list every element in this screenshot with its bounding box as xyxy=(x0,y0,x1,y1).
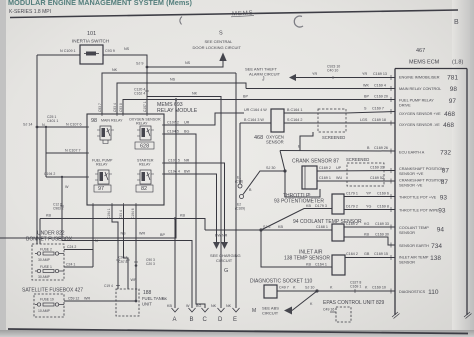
svg-text:C40 10: C40 10 xyxy=(327,69,338,73)
svg-text:CIRCUIT: CIRCUIT xyxy=(216,258,233,263)
connector C90 3 / C20 3 on WR wire xyxy=(134,261,138,263)
svg-text:467: 467 xyxy=(416,48,425,54)
svg-text:NK: NK xyxy=(211,304,217,308)
svg-text:C169 18: C169 18 xyxy=(372,118,386,122)
svg-text:97: 97 xyxy=(98,186,104,192)
svg-text:C97 8: C97 8 xyxy=(119,260,128,264)
svg-text:BONNET FUSEBOX: BONNET FUSEBOX xyxy=(26,237,73,243)
svg-text:BP: BP xyxy=(364,95,369,99)
svg-text:C169 33: C169 33 xyxy=(375,222,389,226)
svg-text:KB: KB xyxy=(364,233,369,237)
svg-text:SENSOR: SENSOR xyxy=(266,140,284,145)
svg-text:C49 7: C49 7 xyxy=(279,286,289,290)
screened shield box (oxygen) xyxy=(318,109,346,132)
svg-text:FUSE 1: FUSE 1 xyxy=(40,265,52,269)
right page-curl shading xyxy=(452,0,474,333)
svg-text:YR: YR xyxy=(362,72,367,76)
svg-text:NS: NS xyxy=(170,78,176,82)
wire KG coolant to ECM xyxy=(344,226,395,228)
inertia switch 101 xyxy=(72,31,109,64)
svg-text:C93 7: C93 7 xyxy=(98,103,102,112)
arrow B xyxy=(189,308,196,312)
svg-text:RELAY: RELAY xyxy=(139,163,151,167)
svg-text:C90 2: C90 2 xyxy=(119,256,128,260)
wire C24 1 from fusebox xyxy=(64,266,93,268)
wire B to ECM ecu earth xyxy=(280,150,395,153)
svg-text:FUSE 19: FUSE 19 xyxy=(40,298,54,302)
svg-text:N C107 6: N C107 6 xyxy=(66,123,82,127)
svg-text:SENSOR +VE: SENSOR +VE xyxy=(399,172,424,176)
svg-text:SJ 10: SJ 10 xyxy=(305,286,314,290)
svg-text:10 AMP: 10 AMP xyxy=(38,309,51,313)
node SJ 9 xyxy=(146,66,149,69)
top rule xyxy=(10,10,458,18)
wire NK down to arrow E xyxy=(235,73,237,308)
wire KB to coolant sensor with node SJ5 xyxy=(205,229,332,231)
svg-text:NS: NS xyxy=(124,47,130,51)
svg-text:SENSOR: SENSOR xyxy=(399,231,415,235)
svg-text:93: 93 xyxy=(440,195,448,202)
svg-text:RELAY: RELAY xyxy=(96,163,108,167)
svg-text:KB: KB xyxy=(278,225,283,229)
svg-text:A: A xyxy=(173,317,177,323)
svg-text:C169 6: C169 6 xyxy=(377,192,389,196)
svg-text:SJ 5: SJ 5 xyxy=(263,225,270,229)
inlet air temp sensor 138 xyxy=(284,250,345,276)
svg-text:110: 110 xyxy=(428,289,439,296)
svg-text:C20 3: C20 3 xyxy=(146,262,155,266)
svg-text:N C107 7: N C107 7 xyxy=(65,149,81,153)
wire KB coolant to ECM sensor earth xyxy=(344,237,395,245)
svg-text:E: E xyxy=(233,317,237,323)
svg-text:C107 5: C107 5 xyxy=(168,159,180,163)
svg-text:C168 1: C168 1 xyxy=(316,225,328,229)
wire NS to door locking arrow xyxy=(147,61,223,67)
svg-text:S: S xyxy=(219,31,223,37)
svg-text:93: 93 xyxy=(438,208,446,215)
arrow A xyxy=(172,308,179,312)
svg-text:C194 4: C194 4 xyxy=(168,170,180,174)
node SJ 30 xyxy=(283,169,286,172)
svg-text:BW: BW xyxy=(184,170,190,174)
svg-text:C169 20: C169 20 xyxy=(374,95,388,99)
svg-text:NK: NK xyxy=(226,304,232,308)
wire KB run to A arrow and coolant sensor xyxy=(40,219,205,245)
bottom connector arrows A-E xyxy=(162,297,232,308)
under bonnet fusebox 822 xyxy=(26,231,73,281)
svg-text:98: 98 xyxy=(91,118,97,124)
svg-text:G: G xyxy=(224,268,228,274)
connector C90 2 / C97 8 on fuel tank wires xyxy=(116,259,130,261)
svg-text:781: 781 xyxy=(447,75,458,82)
svg-text:C169 7: C169 7 xyxy=(372,107,384,111)
bottom page edge xyxy=(0,330,474,337)
wire S to ECM oxygen +ve xyxy=(318,112,395,114)
svg-text:C169 30: C169 30 xyxy=(375,233,389,237)
svg-text:628: 628 xyxy=(140,144,149,150)
wire WU crank to ECM ckp -ve xyxy=(317,180,395,182)
wire W from relay area down to B arrow xyxy=(62,177,192,308)
svg-text:C169 52: C169 52 xyxy=(370,176,384,180)
ECM pin ticks xyxy=(390,75,392,294)
MEMS relay module 693 xyxy=(85,102,198,207)
svg-text:SCREENED: SCREENED xyxy=(322,135,345,140)
screened shield box (crank) xyxy=(347,163,384,186)
wire WR starter feed down xyxy=(135,205,137,301)
wire GB inlet air to ECM xyxy=(345,257,395,259)
wire N below relay module to fusebox xyxy=(92,205,94,267)
svg-text:S C164 2: S C164 2 xyxy=(287,118,302,122)
wire N branch vertical xyxy=(45,127,47,177)
svg-text:YG: YG xyxy=(366,205,371,209)
svg-text:C24 1: C24 1 xyxy=(66,263,75,267)
svg-text:C93 8: C93 8 xyxy=(119,103,123,112)
svg-text:RELAY MODULE: RELAY MODULE xyxy=(157,108,198,114)
svg-text:ECU EARTH A: ECU EARTH A xyxy=(399,151,425,155)
svg-text:SENSOR -VE: SENSOR -VE xyxy=(399,184,423,188)
wire BP to page edge xyxy=(0,100,176,239)
bottom page border xyxy=(8,329,468,334)
svg-text:FUSE 2: FUSE 2 xyxy=(40,248,52,252)
wire left vertical feed xyxy=(36,55,38,244)
wire C194 2 into relay module xyxy=(46,176,87,178)
svg-text:THROTTLE POT WIPE: THROTTLE POT WIPE xyxy=(399,209,439,213)
wire UP crank to ECM ckp +ve xyxy=(317,170,395,173)
svg-text:BP: BP xyxy=(243,95,248,99)
pen mark parenthesis xyxy=(180,17,182,25)
svg-text:C59 12: C59 12 xyxy=(68,297,79,301)
svg-text:SJ 14: SJ 14 xyxy=(23,123,32,127)
svg-text:KG: KG xyxy=(364,222,369,226)
wire WR from satellite fusebox xyxy=(64,300,136,302)
coolant temp sensor 94 xyxy=(293,219,362,241)
svg-text:CRANKSHAFT POSITION: CRANKSHAFT POSITION xyxy=(399,167,444,171)
wire KB into throttle pot xyxy=(261,209,332,231)
svg-text:C24 2: C24 2 xyxy=(67,245,76,249)
svg-text:MAIN RELAY CONTROL: MAIN RELAY CONTROL xyxy=(399,87,441,91)
svg-text:KB: KB xyxy=(46,214,51,218)
svg-text:YR: YR xyxy=(312,72,317,76)
wire NS from inertia switch right xyxy=(103,55,147,67)
svg-text:C164 2: C164 2 xyxy=(346,252,358,256)
wire NS vertical from SJ9 to relay module xyxy=(146,67,148,114)
svg-text:C169 10: C169 10 xyxy=(372,286,386,290)
svg-text:SJ 30: SJ 30 xyxy=(266,166,275,170)
svg-text:734: 734 xyxy=(431,243,442,250)
wire K diagnostic socket to ECM xyxy=(277,290,395,292)
svg-text:101: 101 xyxy=(87,31,96,37)
svg-text:C: C xyxy=(203,317,208,323)
wire B oxygen sensor to screened xyxy=(284,112,318,114)
svg-text:138: 138 xyxy=(430,255,441,262)
arrow to anti theft alarm circuit + YR wire xyxy=(289,74,296,81)
svg-text:C169 26: C169 26 xyxy=(374,146,388,150)
svg-text:W: W xyxy=(186,304,190,308)
svg-text:ALARM CIRCUIT: ALARM CIRCUIT xyxy=(249,71,281,76)
svg-text:C107 2: C107 2 xyxy=(167,121,179,125)
wire NK from main relay across top xyxy=(102,73,236,114)
wire BP fuel pump relay drive to ECM xyxy=(123,100,395,115)
svg-text:94: 94 xyxy=(437,227,445,234)
svg-text:MAIN RELAY: MAIN RELAY xyxy=(101,119,123,123)
svg-text:(C169): (C169) xyxy=(235,207,245,211)
svg-text:KB: KB xyxy=(306,204,311,208)
svg-text:GB: GB xyxy=(364,252,370,256)
svg-text:C169 8: C169 8 xyxy=(377,205,389,209)
svg-text:C49 16: C49 16 xyxy=(323,308,334,312)
svg-text:468: 468 xyxy=(254,135,263,141)
svg-text:OXYGEN SENSOR -VE: OXYGEN SENSOR -VE xyxy=(399,123,440,127)
wire YG throttle to ECM pot wipe xyxy=(344,209,395,211)
svg-text:C93 9: C93 9 xyxy=(105,49,115,53)
svg-text:C194 6: C194 6 xyxy=(131,208,135,219)
svg-text:SEE CENTRAL: SEE CENTRAL xyxy=(205,39,234,44)
svg-text:ENGINE IMMOBILISER: ENGINE IMMOBILISER xyxy=(399,76,440,80)
svg-text:(C78): (C78) xyxy=(235,180,243,184)
throttle potentiometer 93 xyxy=(274,193,344,214)
wire C24 2 from fusebox xyxy=(64,249,93,251)
svg-text:M: M xyxy=(252,308,256,314)
wire NS/WP fuel pump feed down to fuel tank unit xyxy=(112,205,118,289)
arrow D xyxy=(218,308,225,312)
svg-text:INLET AIR TEMP: INLET AIR TEMP xyxy=(399,256,429,260)
wire N from inertia switch to left vertical xyxy=(37,54,80,56)
wire S oxygen sensor to screened xyxy=(284,122,318,124)
svg-text:UR: UR xyxy=(184,121,190,125)
svg-text:C194 2: C194 2 xyxy=(44,172,55,176)
svg-text:K-SERIES 1.8 MPI: K-SERIES 1.8 MPI xyxy=(9,9,51,15)
svg-text:C162 4: C162 4 xyxy=(134,92,145,96)
svg-text:C169 13: C169 13 xyxy=(373,72,387,76)
arrow E xyxy=(233,308,240,312)
wire UR from relay to oxygen sensor xyxy=(164,113,244,125)
wire NR from relay to charging arrow xyxy=(164,163,225,242)
svg-text:B: B xyxy=(454,19,459,26)
node SJ 14 xyxy=(36,126,39,129)
svg-text:C401 1: C401 1 xyxy=(47,119,58,123)
svg-text:NS: NS xyxy=(121,232,127,236)
svg-text:BW NR: BW NR xyxy=(215,234,228,238)
svg-text:KB: KB xyxy=(180,214,185,218)
wire BG from relay to C arrow xyxy=(164,134,205,308)
svg-text:(1.8): (1.8) xyxy=(452,60,463,66)
wire B down to node SJ30 xyxy=(280,151,285,172)
earth point E1 xyxy=(239,123,241,184)
wire NS from relay module top xyxy=(117,83,246,114)
EPAS control unit 829 xyxy=(323,300,385,322)
svg-text:COOLANT TEMP: COOLANT TEMP xyxy=(399,226,429,230)
svg-text:KB: KB xyxy=(167,304,172,308)
svg-text:C169 1: C169 1 xyxy=(350,285,361,289)
svg-text:C169 2: C169 2 xyxy=(319,166,331,170)
svg-text:SENSOR EARTH: SENSOR EARTH xyxy=(399,244,429,248)
svg-text:D179 2: D179 2 xyxy=(346,205,358,209)
svg-text:C19 4: C19 4 xyxy=(104,284,113,288)
svg-text:THROTTLE POT +VE: THROTTLE POT +VE xyxy=(399,196,437,200)
svg-text:98: 98 xyxy=(450,86,458,93)
svg-text:UP: UP xyxy=(336,166,342,170)
svg-text:DRIVE: DRIVE xyxy=(399,104,411,108)
ECM 467 MEMS ECM (1.8) xyxy=(392,48,472,319)
fuel tank unit 188 xyxy=(116,289,165,316)
svg-text:C169 15: C169 15 xyxy=(374,252,388,256)
wire N supply to relay module xyxy=(37,126,87,128)
wire fuel gauge down to fuel tank unit xyxy=(124,205,129,289)
svg-text:YP: YP xyxy=(366,192,371,196)
svg-text:138 TEMP SENSOR: 138 TEMP SENSOR xyxy=(284,256,330,262)
svg-text:BG: BG xyxy=(184,130,189,134)
wire N C107 7 into relay module xyxy=(46,152,87,154)
relay main relay 98 xyxy=(91,118,123,144)
svg-text:WU: WU xyxy=(336,176,342,180)
arrow to central door locking circuit xyxy=(219,53,226,62)
svg-text:SCREENED: SCREENED xyxy=(346,157,369,162)
svg-text:NR: NR xyxy=(184,159,190,163)
svg-text:732: 732 xyxy=(440,150,451,157)
wire BW from relay to charging arrow xyxy=(164,174,217,242)
break marks at box bottom xyxy=(392,312,400,319)
svg-text:NK: NK xyxy=(112,68,118,72)
svg-text:DIAGNOSTIC SOCKET 110: DIAGNOSTIC SOCKET 110 xyxy=(250,279,313,285)
wire LGS to ECM oxygen -ve xyxy=(318,122,395,124)
svg-text:N C109 1: N C109 1 xyxy=(60,49,76,53)
wire B W into oxygen sensor from earth xyxy=(240,122,271,124)
svg-text:CRANKSHAFT POSITION: CRANKSHAFT POSITION xyxy=(399,179,444,183)
svg-text:C194 1: C194 1 xyxy=(107,208,111,219)
svg-text:C93 4: C93 4 xyxy=(113,103,117,112)
arrow see ABS circuit xyxy=(284,307,292,315)
svg-text:30 AMP: 30 AMP xyxy=(38,258,51,262)
svg-text:C169 4: C169 4 xyxy=(374,84,386,88)
svg-text:B C164 1: B C164 1 xyxy=(287,108,302,112)
earth point E2 xyxy=(240,195,244,199)
wire YP throttle to ECM pot +ve xyxy=(344,196,395,198)
svg-text:CIRCUIT: CIRCUIT xyxy=(262,311,279,316)
svg-text:LGS: LGS xyxy=(360,118,368,122)
wire NK from relay module to D arrow xyxy=(147,97,221,309)
svg-text:BG: BG xyxy=(196,304,201,308)
wire WK to ECM main relay control xyxy=(246,88,395,90)
svg-text:RELAY: RELAY xyxy=(136,122,148,126)
wire B from SJ30 to earth E2 xyxy=(243,171,285,195)
wire screen drain to B earth line xyxy=(300,132,313,151)
node SJ 10 xyxy=(315,289,318,292)
svg-text:SATELLITE FUSEBOX 427: SATELLITE FUSEBOX 427 xyxy=(22,288,83,294)
wire K from SJ10 to ABS arrow xyxy=(292,291,317,311)
svg-text:C179 1: C179 1 xyxy=(346,192,358,196)
svg-text:WR: WR xyxy=(84,297,90,301)
svg-text:97: 97 xyxy=(449,98,457,105)
svg-text:WK: WK xyxy=(363,84,369,88)
svg-text:MEMS ECM: MEMS ECM xyxy=(409,60,440,66)
relay oxygen sensor relay 628 xyxy=(129,118,161,150)
svg-text:C164 1: C164 1 xyxy=(315,263,327,267)
svg-text:KB: KB xyxy=(306,263,311,267)
svg-text:EPAS CONTROL UNIT 829: EPAS CONTROL UNIT 829 xyxy=(323,300,385,306)
svg-text:INERTIA SWITCH: INERTIA SWITCH xyxy=(72,39,109,44)
svg-text:NS: NS xyxy=(185,61,191,65)
svg-text:NK: NK xyxy=(192,92,198,96)
svg-text:MODULAR ENGINE MANAGEMENT SYST: MODULAR ENGINE MANAGEMENT SYSTEM (Mems) xyxy=(8,0,192,7)
svg-text:WR: WR xyxy=(139,232,145,236)
svg-text:C169 2: C169 2 xyxy=(346,222,358,226)
svg-text:468: 468 xyxy=(444,111,455,118)
svg-text:D179 3: D179 3 xyxy=(315,204,327,208)
svg-text:B: B xyxy=(190,317,194,323)
svg-text:CRANK SENSOR 87: CRANK SENSOR 87 xyxy=(292,159,339,165)
satellite fusebox 427 xyxy=(22,288,83,318)
svg-text:30 AMP: 30 AMP xyxy=(38,275,51,279)
ECM row engine immobiliser 781 xyxy=(399,75,458,297)
svg-text:468: 468 xyxy=(443,122,454,129)
oxygen sensor 468 xyxy=(254,109,284,145)
svg-text:WP: WP xyxy=(131,278,137,282)
wire KB from SJ5 to inlet air sensor xyxy=(261,230,332,267)
wire B from SJ30 under crank sensor xyxy=(285,171,320,197)
svg-text:NK: NK xyxy=(162,297,168,301)
svg-text:UR C164 4 W: UR C164 4 W xyxy=(244,108,267,112)
pen mark C xyxy=(294,16,303,27)
svg-text:BP: BP xyxy=(160,233,165,237)
crank sensor 87 xyxy=(292,159,339,190)
relay fuel pump relay 97 xyxy=(92,159,113,193)
diagnostic socket 110 xyxy=(250,279,313,299)
svg-text:SJ 9: SJ 9 xyxy=(136,62,143,66)
svg-text:C169 31: C169 31 xyxy=(370,166,384,170)
svg-text:D: D xyxy=(218,317,223,323)
relay starter relay 82 xyxy=(136,159,154,193)
svg-text:W: W xyxy=(65,185,69,189)
svg-text:DIAGNOSTICS: DIAGNOSTICS xyxy=(399,290,426,294)
svg-text:B C164 3 W: B C164 3 W xyxy=(244,118,264,122)
svg-text:C194 5: C194 5 xyxy=(167,130,179,134)
svg-text:C93 4: C93 4 xyxy=(119,210,123,219)
svg-text:87: 87 xyxy=(441,179,449,186)
svg-text:SENSOR: SENSOR xyxy=(399,261,415,265)
svg-text:FUEL PUMP RELAY: FUEL PUMP RELAY xyxy=(399,99,434,103)
svg-text:C107 1: C107 1 xyxy=(143,101,147,112)
svg-text:C963 2: C963 2 xyxy=(53,207,64,211)
arrow C xyxy=(202,308,209,312)
svg-text:DOOR LOCKING CIRCUIT: DOOR LOCKING CIRCUIT xyxy=(193,45,242,50)
svg-text:OXYGEN SENSOR +VE: OXYGEN SENSOR +VE xyxy=(399,112,441,116)
svg-text:87: 87 xyxy=(442,168,450,175)
svg-text:UNIT: UNIT xyxy=(142,302,152,307)
svg-text:C169 1: C169 1 xyxy=(319,176,331,180)
svg-text:82: 82 xyxy=(141,186,147,192)
svg-text:N: N xyxy=(42,123,45,127)
